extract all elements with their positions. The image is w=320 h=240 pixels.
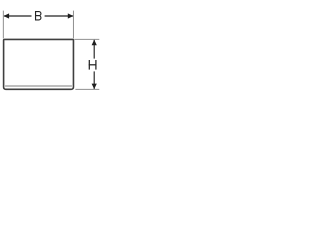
dimension line H bottom segment	[93, 71, 95, 89]
extension line right (B)	[72, 11, 74, 39]
extension line left (B)	[2, 11, 4, 39]
panel outline (front view rectangle)	[4, 39, 74, 89]
arrowhead B right	[68, 13, 74, 18]
dimension line B left segment	[4, 15, 32, 17]
arrowhead H bottom	[92, 84, 97, 90]
dimension line B right segment	[45, 15, 73, 17]
label H (drawn glyph)	[89, 60, 97, 70]
dimension line H top segment	[93, 40, 95, 59]
extension line bottom (H)	[75, 88, 99, 90]
label B (drawn glyph)	[35, 11, 41, 21]
arrowhead B left	[4, 13, 10, 18]
extension line top (H)	[74, 38, 99, 40]
arrowhead H top	[92, 40, 97, 46]
panel bottom seam line	[5, 85, 72, 87]
